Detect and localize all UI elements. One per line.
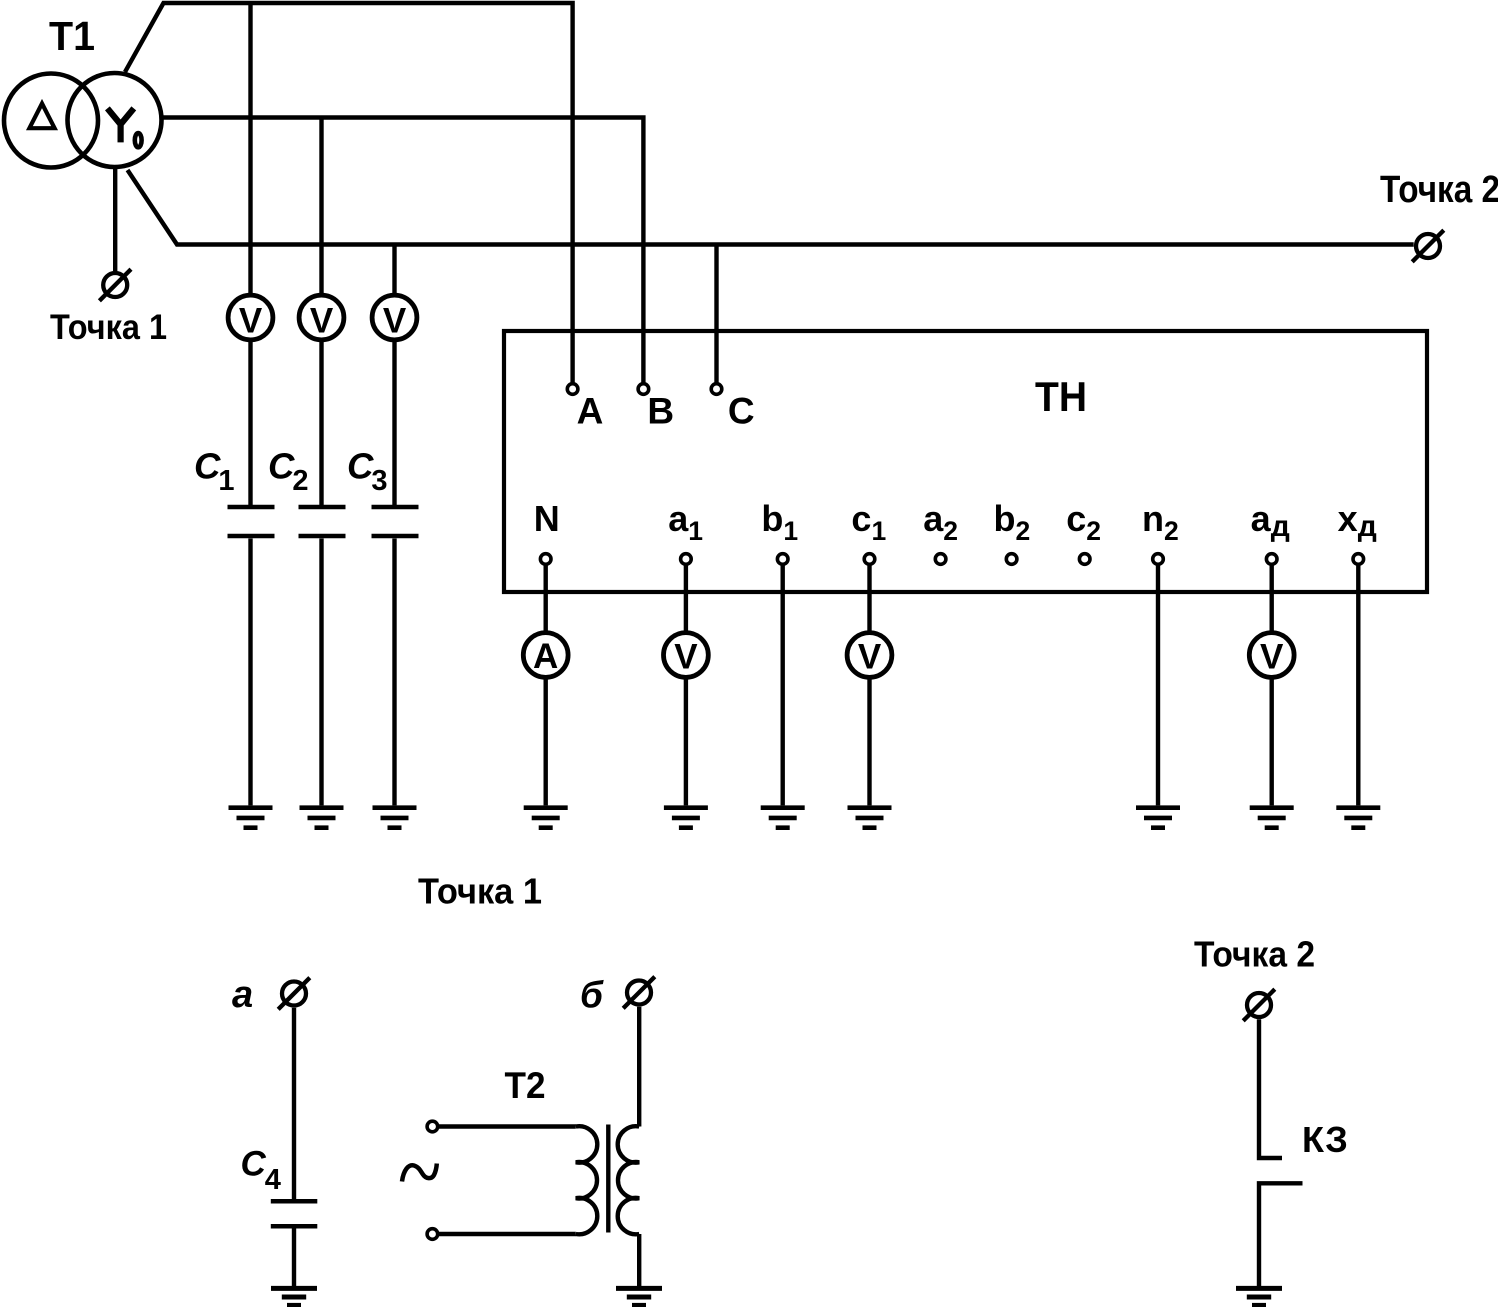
- svg-text:V: V: [239, 302, 263, 341]
- svg-text:V: V: [1260, 638, 1284, 677]
- svg-text:xд: xд: [1338, 498, 1377, 543]
- svg-text:КЗ: КЗ: [1302, 1119, 1348, 1160]
- svg-text:V: V: [310, 302, 334, 341]
- svg-text:N: N: [534, 498, 560, 539]
- svg-text:V: V: [858, 638, 882, 677]
- svg-text:C4: C4: [241, 1144, 281, 1196]
- svg-text:a: a: [232, 974, 253, 1016]
- svg-text:n2: n2: [1142, 498, 1179, 546]
- svg-text:Точка 1: Точка 1: [418, 871, 542, 912]
- svg-text:Точка 2: Точка 2: [1194, 934, 1315, 975]
- svg-text:A: A: [533, 637, 558, 676]
- svg-text:T2: T2: [505, 1065, 546, 1106]
- svg-text:aд: aд: [1251, 498, 1290, 543]
- svg-text:ТН: ТН: [1035, 373, 1087, 420]
- svg-text:C3: C3: [347, 446, 388, 498]
- svg-text:Точка 2: Точка 2: [1380, 169, 1498, 211]
- svg-text:б: б: [580, 975, 604, 1016]
- svg-text:a1: a1: [668, 498, 703, 546]
- svg-text:C1: C1: [194, 446, 235, 498]
- svg-text:Точка 1: Точка 1: [50, 308, 167, 347]
- svg-text:c2: c2: [1066, 498, 1101, 546]
- svg-text:b2: b2: [994, 498, 1031, 546]
- svg-text:B: B: [647, 391, 674, 432]
- svg-text:V: V: [383, 302, 407, 341]
- svg-text:A: A: [577, 391, 604, 432]
- svg-text:V: V: [674, 638, 698, 677]
- svg-text:T1: T1: [49, 13, 95, 59]
- svg-text:b1: b1: [761, 498, 798, 546]
- svg-text:C: C: [728, 391, 755, 432]
- svg-text:c1: c1: [851, 498, 886, 546]
- svg-text:C2: C2: [268, 446, 309, 498]
- svg-text:a2: a2: [923, 498, 958, 546]
